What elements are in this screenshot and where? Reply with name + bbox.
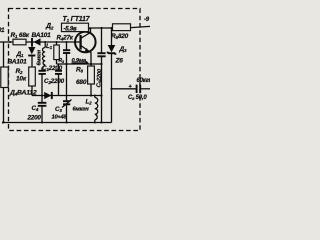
diode D2 xyxy=(32,38,41,46)
capacitor C2 plates (col 66.5 top) xyxy=(63,42,70,64)
paper background xyxy=(0,0,150,150)
wire: colB vertical xyxy=(111,28,113,45)
node: C5 bottom xyxy=(101,122,103,124)
node: L2 bottom xyxy=(94,122,96,124)
node: colA top xyxy=(100,27,102,29)
wire: col 66.5 down xyxy=(66,64,68,101)
wire: bottom bus xyxy=(4,122,112,124)
wire: input/base line y=42 xyxy=(0,41,75,43)
node: col42 on bus95 xyxy=(41,94,43,96)
diode D4 xyxy=(44,92,52,99)
wire: C8 branch xyxy=(112,88,137,90)
node: R3 top xyxy=(56,41,58,43)
node: D1/D2 junction on base wire xyxy=(31,41,33,43)
svg-text:2200: 2200 xyxy=(27,115,42,122)
capacitor C1 plates (col 42) xyxy=(39,71,46,96)
inductor L1 xyxy=(42,42,45,71)
resistor (outer, left edge) xyxy=(1,67,8,88)
node: C4 bottom xyxy=(41,122,43,124)
svg-text:10÷48: 10÷48 xyxy=(52,115,68,121)
node: left wire to bottom bus xyxy=(2,121,4,123)
node: L1 top xyxy=(44,41,46,43)
node: C3 bottom xyxy=(66,122,68,124)
node: L2 top xyxy=(94,95,96,97)
diode D1 xyxy=(28,42,35,67)
wire: colA vertical xyxy=(101,28,103,53)
capacitor plates (col 58.5) xyxy=(55,64,62,96)
capacitor C3 (trimmer) xyxy=(62,100,72,123)
capacitor C5 plates (colA) xyxy=(97,53,105,122)
svg-text:С8 50,0: С8 50,0 xyxy=(128,95,147,101)
current arrow under 0.9ma xyxy=(72,62,87,64)
svg-text:60кгц: 60кгц xyxy=(137,78,151,84)
voltage box -5.9v xyxy=(62,23,89,32)
node: collector xyxy=(89,27,91,29)
svg-text:ВА101: ВА101 xyxy=(32,32,52,39)
node: colB top xyxy=(110,27,112,29)
node: R6 on bus95 xyxy=(90,94,92,96)
diode D3 (zener) xyxy=(108,45,116,123)
node: bus95 right end xyxy=(100,94,102,96)
capacitor C4 plates xyxy=(38,96,47,123)
resistor R6 xyxy=(88,64,95,96)
transistor T1 xyxy=(75,28,96,64)
svg-text:10к: 10к xyxy=(16,76,27,83)
resistor R5 xyxy=(113,24,131,31)
wire: left outer vertical xyxy=(3,42,5,123)
svg-text:-5,9в: -5,9в xyxy=(64,26,78,32)
svg-text:R5820: R5820 xyxy=(111,33,129,40)
wire: collector bus y=28 xyxy=(90,27,114,29)
resistor R1 xyxy=(13,39,26,45)
wire: R2 to mid bus xyxy=(31,86,33,96)
svg-text:680: 680 xyxy=(76,79,87,86)
wire: mid bus y=64 xyxy=(57,63,102,65)
capacitor C8 (electrolytic) xyxy=(129,84,151,93)
wire: bus y=95.5 xyxy=(32,95,102,97)
svg-text:R427к: R427к xyxy=(57,34,74,41)
dashed enclosure border xyxy=(9,9,141,131)
svg-text:6мкгн: 6мкгн xyxy=(73,107,90,113)
svg-text:Д4ВА112: Д4ВА112 xyxy=(9,90,37,97)
node: border crossing on base wire xyxy=(9,41,11,43)
svg-text:6мкгн: 6мкгн xyxy=(36,49,42,65)
svg-text:-9: -9 xyxy=(144,17,150,23)
svg-text:С22200: С22200 xyxy=(44,78,65,85)
node: mid bus right end xyxy=(100,63,102,65)
node: emitter on mid bus xyxy=(90,63,92,65)
resistor R3 xyxy=(54,42,60,64)
inductor L2 xyxy=(95,96,98,123)
node: col 66.5 on mid bus xyxy=(65,63,67,65)
node: C2 top xyxy=(66,41,68,43)
svg-text:Z6: Z6 xyxy=(115,58,124,65)
node: C8 branch xyxy=(110,88,112,90)
svg-text:R1 68к: R1 68к xyxy=(11,32,30,39)
svg-text:С52200: С52200 xyxy=(96,68,103,88)
svg-text:ВА101: ВА101 xyxy=(8,59,28,66)
resistor R2 xyxy=(29,67,36,86)
wire: output right top xyxy=(131,26,150,27)
